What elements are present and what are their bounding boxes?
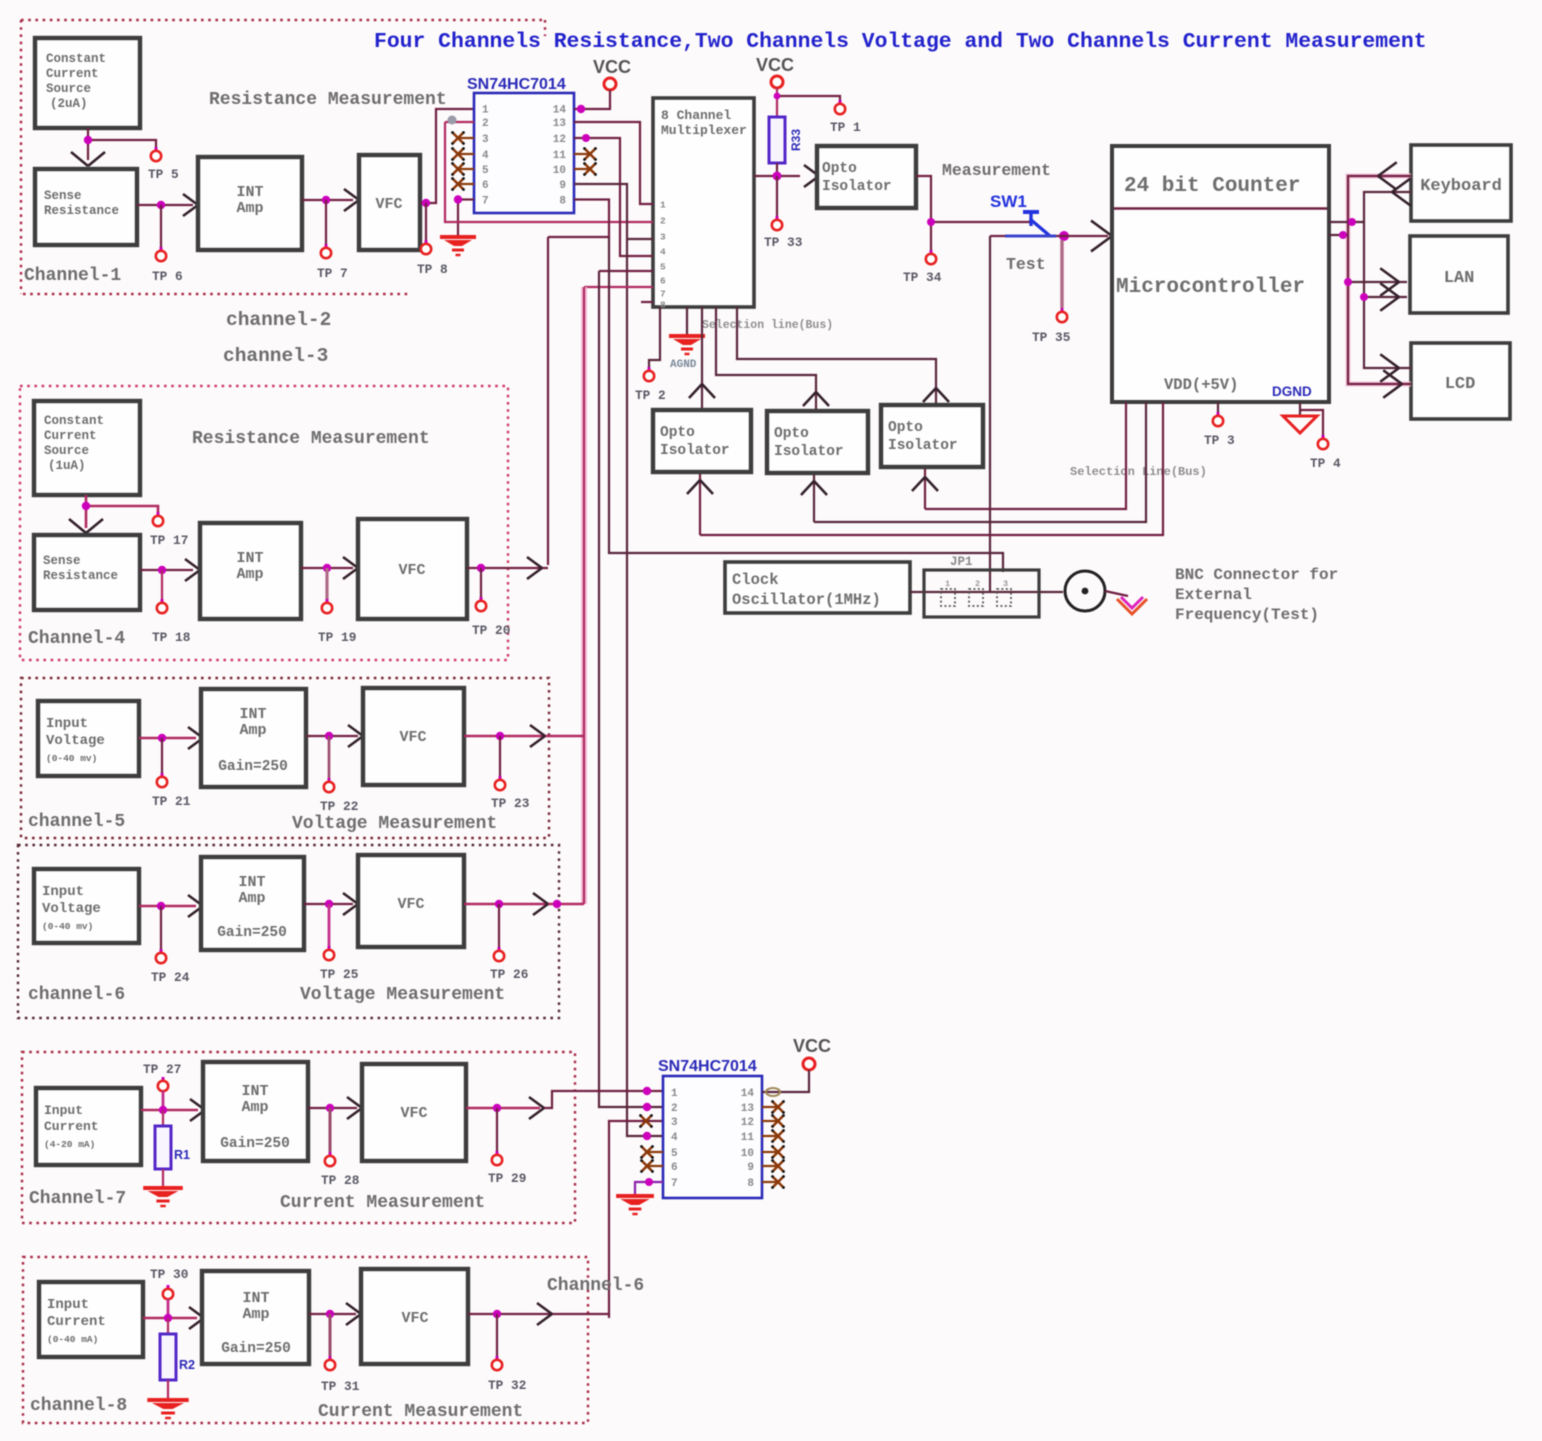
svg-text:channel-6: channel-6 bbox=[28, 985, 125, 1005]
svg-text:R33: R33 bbox=[789, 129, 803, 151]
svg-text:TP 31: TP 31 bbox=[321, 1379, 360, 1394]
svg-text:BNC Connector for: BNC Connector for bbox=[1175, 566, 1338, 584]
switch SW1 bbox=[990, 192, 1056, 236]
svg-text:Resistance Measurement: Resistance Measurement bbox=[192, 429, 430, 449]
VFC Channel-4 bbox=[358, 519, 467, 619]
svg-text:Current: Current bbox=[46, 67, 99, 81]
svg-text:24 bit Counter: 24 bit Counter bbox=[1124, 175, 1300, 198]
arrow into VFC ch4 bbox=[343, 557, 358, 568]
svg-text:TP 21: TP 21 bbox=[152, 794, 191, 809]
svg-text:Isolator: Isolator bbox=[774, 444, 844, 460]
channel-6 dashed boundary bbox=[18, 845, 559, 1018]
opto isolator C bbox=[881, 405, 983, 467]
svg-text:14: 14 bbox=[553, 105, 567, 117]
wire U1 pin13 to mux pin1 bbox=[574, 122, 653, 204]
arrow channel-6 output bbox=[533, 893, 548, 904]
svg-text:Sense: Sense bbox=[43, 554, 81, 568]
svg-text:TP 32: TP 32 bbox=[488, 1378, 526, 1393]
svg-text:Test: Test bbox=[1006, 255, 1046, 274]
svg-text:10: 10 bbox=[553, 165, 566, 177]
Channel-4 dashed boundary bbox=[20, 386, 508, 660]
constant current source (2uA) Channel-1 bbox=[35, 38, 140, 128]
no-connect X U2 pin9 bbox=[762, 1159, 785, 1173]
svg-text:INT: INT bbox=[236, 184, 263, 201]
svg-text:INT: INT bbox=[238, 874, 265, 891]
arrow into INT amp ch5 bbox=[188, 727, 203, 738]
svg-text:9: 9 bbox=[747, 1162, 754, 1174]
arrow into INT amp ch4 bbox=[185, 559, 200, 570]
arrow into INT amp ch1 bbox=[183, 194, 198, 216]
INT amp Channel-1 bbox=[198, 157, 302, 250]
arrow channel-4 output bbox=[527, 557, 542, 568]
wire VFC7 output bbox=[466, 1104, 540, 1112]
svg-text:INT: INT bbox=[236, 550, 263, 567]
wire U1 pin12 down to mux pin4 bbox=[574, 134, 653, 256]
wire input7 junction to INT amp bbox=[141, 1106, 198, 1114]
wire opto B bottom arrow bbox=[801, 475, 827, 522]
wire mux pin6 from channel riser x584 bbox=[584, 286, 653, 288]
ground below R1 bbox=[143, 1169, 183, 1206]
wire selection line micro to opto B bbox=[814, 402, 1146, 522]
svg-text:VFC: VFC bbox=[375, 196, 402, 213]
wire INT6 to VFC bbox=[304, 900, 353, 908]
svg-text:Four Channels Resistance,Two C: Four Channels Resistance,Two Channels Vo… bbox=[374, 30, 1427, 54]
svg-text:TP 30: TP 30 bbox=[150, 1267, 188, 1282]
svg-text:TP 19: TP 19 bbox=[318, 630, 356, 645]
test point TP35 bbox=[1032, 240, 1071, 345]
svg-text:Opto: Opto bbox=[774, 426, 809, 442]
svg-text:Amp: Amp bbox=[239, 722, 266, 739]
arrow keyboard to bus inner bbox=[1392, 178, 1411, 192]
svg-text:Channel-7: Channel-7 bbox=[29, 1189, 126, 1209]
svg-text:Sense: Sense bbox=[44, 189, 82, 203]
svg-text:TP 35: TP 35 bbox=[1032, 330, 1071, 345]
test point TP32 bbox=[488, 1314, 526, 1393]
ground below R2 bbox=[147, 1380, 188, 1418]
svg-text:Input: Input bbox=[46, 716, 88, 732]
svg-text:TP 7: TP 7 bbox=[317, 266, 348, 281]
wire U1 pin8 bus down to JP1 pin3 bbox=[609, 237, 1003, 572]
svg-text:5: 5 bbox=[671, 1148, 678, 1160]
bus wire micro to peripherals inner bbox=[1364, 192, 1411, 368]
test point TP24 bbox=[151, 906, 190, 985]
svg-text:(2uA): (2uA) bbox=[50, 97, 88, 111]
wire mux pin7 stub bbox=[641, 301, 653, 303]
arrow into mux from opto A bbox=[689, 384, 702, 398]
svg-text:Amp: Amp bbox=[238, 890, 265, 907]
wire CCS to sense resistance with branch to TP5 bbox=[84, 128, 156, 160]
svg-text:1: 1 bbox=[482, 105, 489, 117]
wire micro stub to inner bus bbox=[1329, 218, 1364, 226]
svg-text:7: 7 bbox=[482, 196, 489, 208]
svg-text:TP 18: TP 18 bbox=[152, 630, 190, 645]
VFC Channel-1 bbox=[359, 155, 420, 250]
svg-text:SW1: SW1 bbox=[990, 192, 1027, 211]
svg-text:Isolator: Isolator bbox=[822, 179, 892, 195]
wire channel-8 riser x609 to U2 pin3 bbox=[609, 1121, 663, 1318]
wire channel-4 output riser x548 bbox=[547, 237, 549, 565]
svg-text:Input: Input bbox=[42, 884, 84, 900]
svg-text:Isolator: Isolator bbox=[660, 443, 730, 459]
svg-text:TP 28: TP 28 bbox=[321, 1173, 359, 1188]
svg-text:Opto: Opto bbox=[822, 161, 857, 177]
svg-text:14: 14 bbox=[741, 1088, 755, 1100]
svg-text:9: 9 bbox=[559, 180, 566, 192]
svg-text:VCC: VCC bbox=[756, 55, 794, 75]
wire CCS4 to sense with branch TP17 bbox=[82, 495, 158, 528]
op-amp U1 SN74HC7014 bbox=[467, 76, 574, 213]
svg-text:7: 7 bbox=[660, 289, 666, 300]
svg-text:(1uA): (1uA) bbox=[48, 459, 86, 473]
arrow LCD outer bbox=[1383, 370, 1402, 384]
arrow into sense resistance ch4 bbox=[69, 519, 86, 533]
test point TP6 bbox=[152, 205, 183, 284]
svg-text:VFC: VFC bbox=[401, 1310, 428, 1327]
arrow LCD inner bbox=[1380, 354, 1399, 368]
wire clock to JP1 to BNC bbox=[910, 591, 1063, 593]
wire sense to INT amp bbox=[137, 201, 193, 209]
INT amp Channel-4 bbox=[200, 523, 301, 619]
U1 pin7 stub wire bbox=[454, 195, 474, 203]
svg-text:2: 2 bbox=[660, 216, 666, 227]
input voltage block ch6 bbox=[34, 869, 139, 943]
test point TP8 bbox=[417, 203, 448, 277]
arrow channel-5 output bbox=[530, 725, 545, 736]
no-connect X U2 pin13 bbox=[762, 1100, 785, 1114]
svg-text:8 Channel: 8 Channel bbox=[661, 108, 731, 123]
svg-text:3: 3 bbox=[660, 232, 666, 243]
opto isolator B bbox=[767, 411, 868, 473]
svg-text:TP 5: TP 5 bbox=[148, 167, 179, 182]
svg-text:INT: INT bbox=[239, 706, 266, 723]
svg-text:channel-8: channel-8 bbox=[30, 1396, 127, 1416]
wire U1 pin2 to mux pin2 (long bus) bbox=[445, 122, 653, 222]
svg-text:External: External bbox=[1175, 586, 1252, 604]
AGND ground below mux bbox=[669, 307, 705, 371]
svg-text:Source: Source bbox=[44, 444, 89, 458]
wire mux pin5 from channel riser x599 bbox=[599, 270, 653, 272]
test point TP20 bbox=[472, 568, 510, 638]
svg-text:6: 6 bbox=[660, 276, 666, 287]
svg-text:4: 4 bbox=[671, 1132, 678, 1144]
INT amp ch7 Gain=250 bbox=[203, 1062, 308, 1161]
test point TP4 bbox=[1300, 410, 1341, 471]
wire INT amp to VFC ch1 bbox=[302, 196, 353, 204]
svg-text:Channel-1: Channel-1 bbox=[24, 266, 121, 286]
svg-text:Voltage: Voltage bbox=[46, 733, 105, 749]
svg-text:Resistance: Resistance bbox=[44, 204, 119, 218]
test point TP21 bbox=[152, 738, 191, 809]
VCC for U1 bbox=[574, 57, 631, 113]
svg-text:TP 6: TP 6 bbox=[152, 269, 183, 284]
svg-text:VFC: VFC bbox=[397, 896, 424, 913]
resistor R33 bbox=[769, 117, 803, 163]
wire INT5 to VFC bbox=[306, 732, 358, 740]
arrow into INT amp ch6 bbox=[188, 895, 203, 906]
svg-text:TP 23: TP 23 bbox=[491, 796, 530, 811]
svg-text:R1: R1 bbox=[174, 1148, 190, 1162]
no-connect X U1 pin10 bbox=[574, 162, 597, 176]
DGND symbol bbox=[1283, 402, 1317, 433]
ground below U2 bbox=[616, 1194, 654, 1198]
wire sense4 to INT amp bbox=[140, 566, 193, 574]
no-connect X U2 pin8 bbox=[762, 1175, 785, 1189]
svg-text:11: 11 bbox=[553, 150, 567, 162]
svg-text:TP 20: TP 20 bbox=[472, 623, 510, 638]
svg-text:2: 2 bbox=[482, 118, 489, 130]
test point TP29 bbox=[488, 1108, 526, 1186]
svg-text:Current: Current bbox=[44, 429, 97, 443]
ground below U1 pin7 bbox=[440, 200, 476, 255]
test point TP26 bbox=[490, 904, 528, 982]
INT amp ch6 Gain=250 bbox=[201, 857, 304, 950]
svg-text:TP 24: TP 24 bbox=[151, 970, 190, 985]
Channel-7 dashed boundary bbox=[22, 1052, 575, 1223]
svg-text:TP 4: TP 4 bbox=[1310, 456, 1341, 471]
svg-text:5: 5 bbox=[482, 165, 489, 177]
svg-text:R2: R2 bbox=[179, 1358, 195, 1372]
arrow keyboard to bus outer bbox=[1378, 162, 1397, 176]
microcontroller with 24 bit counter bbox=[1112, 146, 1329, 402]
wire INT7 to VFC bbox=[308, 1104, 357, 1112]
wire U1 pin9 down long bus to bottom (branch mux pin3) bbox=[574, 184, 663, 1140]
wire channel-7 output jog to U2 pin1 bbox=[544, 1087, 663, 1108]
svg-text:Gain=250: Gain=250 bbox=[221, 1341, 291, 1357]
svg-text:TP 22: TP 22 bbox=[320, 799, 358, 814]
VFC ch7 bbox=[362, 1064, 466, 1161]
svg-text:12: 12 bbox=[741, 1117, 754, 1129]
svg-text:3: 3 bbox=[482, 134, 489, 146]
svg-text:JP1: JP1 bbox=[950, 555, 973, 569]
svg-text:3: 3 bbox=[1003, 579, 1008, 589]
arrow into VFC ch7 bbox=[347, 1097, 362, 1108]
arrow into sense resistance bbox=[71, 152, 105, 166]
test point TP1 bbox=[830, 100, 861, 135]
no-connect X U2 pin12 bbox=[762, 1114, 785, 1128]
svg-text:Resistance Measurement: Resistance Measurement bbox=[209, 90, 447, 110]
wire R33 to junction and mux output row bbox=[754, 163, 800, 181]
svg-text:Selection Line(Bus): Selection Line(Bus) bbox=[1070, 465, 1207, 479]
wire riser x599 to bottom U2 pin2 bbox=[599, 271, 663, 1111]
svg-text:(0-40 mv): (0-40 mv) bbox=[46, 753, 97, 764]
wire SW1 output to microcontroller bbox=[1056, 221, 1112, 252]
8 channel multiplexer bbox=[653, 98, 754, 311]
opto isolator A bbox=[653, 410, 751, 472]
no-connect X U1 pin6 bbox=[451, 177, 474, 191]
wire VFC6 output to riser bbox=[464, 900, 584, 908]
resistor R2 bbox=[160, 1318, 195, 1380]
svg-text:TP 34: TP 34 bbox=[903, 270, 942, 285]
svg-text:LCD: LCD bbox=[1445, 375, 1476, 394]
wire SW1 test contact down to JP1 bbox=[990, 236, 1005, 592]
opto isolator 1 bbox=[817, 146, 916, 208]
wire mux to opto C top bbox=[737, 307, 936, 404]
no-connect X U2 pin6 bbox=[640, 1159, 663, 1173]
svg-text:Channel-6: Channel-6 bbox=[547, 1276, 644, 1296]
test point TP34 bbox=[903, 218, 942, 285]
svg-text:6: 6 bbox=[482, 180, 489, 192]
svg-text:Frequency(Test): Frequency(Test) bbox=[1175, 606, 1319, 624]
test point TP17 bbox=[150, 512, 188, 548]
wire input8 junction to INT amp bbox=[143, 1314, 197, 1322]
wire opto A bottom arrow bbox=[687, 474, 713, 535]
svg-text:DGND: DGND bbox=[1272, 384, 1312, 399]
op-amp U2 SN74HC7014 bbox=[658, 1058, 762, 1198]
label BNC Connector for External Frequency(Test) bbox=[1175, 566, 1338, 624]
svg-text:TP 26: TP 26 bbox=[490, 967, 528, 982]
wire input5 to INT amp bbox=[139, 734, 196, 742]
svg-text:8: 8 bbox=[559, 196, 566, 208]
svg-text:VCC: VCC bbox=[593, 57, 631, 77]
svg-text:INT: INT bbox=[241, 1083, 268, 1100]
svg-text:Isolator: Isolator bbox=[888, 438, 958, 454]
wire selection line micro to opto A bbox=[700, 402, 1163, 535]
svg-text:VCC: VCC bbox=[793, 1036, 831, 1056]
keyboard block bbox=[1411, 145, 1511, 221]
input voltage block ch5 bbox=[38, 701, 139, 776]
svg-text:channel-2: channel-2 bbox=[226, 309, 331, 331]
svg-text:(0-40 mA): (0-40 mA) bbox=[47, 1334, 98, 1345]
svg-text:10: 10 bbox=[741, 1148, 754, 1160]
connector JP1 bbox=[924, 555, 1039, 617]
svg-text:Current: Current bbox=[47, 1314, 106, 1330]
svg-text:1: 1 bbox=[671, 1088, 678, 1100]
svg-text:TP 17: TP 17 bbox=[150, 533, 188, 548]
wire input6 to INT amp bbox=[139, 902, 196, 910]
test point TP18 bbox=[152, 570, 190, 645]
svg-text:Gain=250: Gain=250 bbox=[220, 1136, 290, 1152]
arrow channel-7 output bbox=[529, 1097, 544, 1108]
svg-text:TP 29: TP 29 bbox=[488, 1171, 526, 1186]
svg-text:Microcontroller: Microcontroller bbox=[1116, 276, 1305, 299]
svg-text:Input: Input bbox=[47, 1297, 89, 1313]
svg-text:Oscillator(1MHz): Oscillator(1MHz) bbox=[732, 591, 881, 609]
wire mux to opto A top bbox=[701, 307, 703, 408]
wire micro stub to outer bus bbox=[1329, 231, 1348, 239]
no-connect X U1 pin3 bbox=[451, 131, 474, 145]
test point TP7 bbox=[317, 200, 348, 281]
svg-text:Clock: Clock bbox=[732, 571, 779, 589]
svg-text:8: 8 bbox=[747, 1178, 754, 1190]
svg-text:Input: Input bbox=[44, 1103, 83, 1118]
svg-text:TP 25: TP 25 bbox=[320, 967, 359, 982]
svg-text:Amp: Amp bbox=[242, 1306, 269, 1323]
clock oscillator 1MHz bbox=[725, 562, 910, 613]
svg-text:INT: INT bbox=[242, 1290, 269, 1307]
input current block ch7 bbox=[36, 1088, 141, 1165]
svg-text:SN74HC7014: SN74HC7014 bbox=[658, 1058, 757, 1075]
wire VCC branch to TP1 bbox=[774, 93, 840, 102]
arrow into VFC ch5 bbox=[348, 725, 363, 736]
ground arrow at BNC bbox=[1117, 597, 1147, 614]
no-connect X U2 pin10 bbox=[762, 1145, 785, 1159]
test point TP31 bbox=[321, 1314, 360, 1394]
svg-text:Gain=250: Gain=250 bbox=[217, 925, 287, 941]
svg-text:12: 12 bbox=[553, 134, 566, 146]
svg-text:VFC: VFC bbox=[398, 562, 425, 579]
svg-text:TP 8: TP 8 bbox=[417, 262, 448, 277]
wire mux to TP2 bbox=[649, 307, 660, 369]
svg-text:Amp: Amp bbox=[236, 566, 263, 583]
svg-text:Multiplexer: Multiplexer bbox=[661, 123, 747, 138]
svg-text:Voltage Measurement: Voltage Measurement bbox=[300, 985, 505, 1005]
svg-text:channel-5: channel-5 bbox=[28, 812, 125, 832]
LCD block bbox=[1411, 343, 1510, 419]
wire VFC5 output to riser bbox=[464, 732, 584, 740]
no-connect X U2 pin5 bbox=[640, 1145, 663, 1159]
svg-text:2: 2 bbox=[975, 579, 980, 589]
svg-text:4: 4 bbox=[482, 150, 489, 162]
svg-text:Amp: Amp bbox=[241, 1099, 268, 1116]
Channel-8 dashed boundary bbox=[23, 1257, 588, 1423]
svg-text:Channel-4: Channel-4 bbox=[28, 629, 125, 649]
svg-text:TP 33: TP 33 bbox=[764, 235, 803, 250]
svg-text:Current: Current bbox=[44, 1119, 99, 1134]
constant current source (1uA) Channel-4 bbox=[34, 401, 140, 495]
svg-text:Amp: Amp bbox=[236, 200, 263, 217]
test point TP33 bbox=[764, 176, 803, 250]
INT amp ch5 Gain=250 bbox=[201, 689, 306, 787]
bus wire micro to peripherals outer bbox=[1348, 176, 1411, 384]
wire INT8 to VFC bbox=[309, 1310, 356, 1318]
svg-text:7: 7 bbox=[671, 1178, 678, 1190]
no-connect X U2 pin11 bbox=[762, 1129, 785, 1143]
svg-text:Voltage: Voltage bbox=[42, 901, 101, 917]
svg-text:VFC: VFC bbox=[399, 729, 426, 746]
svg-text:Opto: Opto bbox=[888, 420, 923, 436]
input current block ch8 bbox=[39, 1282, 143, 1357]
test point TP25 bbox=[320, 904, 359, 982]
wire INT4 to VFC bbox=[301, 564, 353, 572]
wire U1 pin8 to channel-4 riser bbox=[548, 200, 609, 238]
wire opto1 output to SW1 bbox=[916, 176, 1031, 222]
svg-text:VFC: VFC bbox=[400, 1105, 427, 1122]
wire channel-5/6 output riser x584 bbox=[581, 287, 587, 904]
svg-text:Keyboard: Keyboard bbox=[1420, 177, 1502, 196]
svg-text:Selection line(Bus): Selection line(Bus) bbox=[702, 319, 833, 332]
arrow into VFC ch6 bbox=[343, 893, 358, 904]
test point TP19 bbox=[318, 568, 356, 645]
svg-text:AGND: AGND bbox=[670, 359, 697, 371]
svg-text:2: 2 bbox=[671, 1103, 678, 1115]
svg-text:VDD(+5V): VDD(+5V) bbox=[1164, 376, 1238, 394]
sense resistance Channel-1 bbox=[35, 169, 137, 245]
svg-text:Constant: Constant bbox=[44, 414, 104, 428]
VCC for U2 bbox=[762, 1036, 831, 1096]
svg-text:Source: Source bbox=[46, 82, 91, 96]
test point TP27 bbox=[143, 1062, 181, 1110]
svg-text:TP 2: TP 2 bbox=[635, 388, 666, 403]
wire U2 pin7 to ground bbox=[635, 1178, 663, 1194]
VFC ch5 bbox=[363, 688, 464, 785]
svg-text:1: 1 bbox=[945, 579, 950, 589]
LAN block bbox=[1410, 236, 1508, 313]
svg-text:(0-40 mv): (0-40 mv) bbox=[42, 921, 93, 932]
arrow opto B top bbox=[803, 392, 816, 406]
svg-text:Measurement: Measurement bbox=[942, 161, 1051, 180]
svg-text:Constant: Constant bbox=[46, 52, 106, 66]
arrow into INT amp ch7 bbox=[190, 1099, 205, 1110]
svg-text:SN74HC7014: SN74HC7014 bbox=[467, 76, 566, 93]
svg-text:11: 11 bbox=[741, 1132, 755, 1144]
svg-text:3: 3 bbox=[671, 1117, 678, 1129]
no-connect X U1 pin5 bbox=[451, 162, 474, 176]
resistor R1 bbox=[155, 1110, 190, 1169]
svg-text:Gain=250: Gain=250 bbox=[218, 759, 288, 775]
INT amp ch8 Gain=250 bbox=[202, 1271, 309, 1364]
svg-text:channel-3: channel-3 bbox=[223, 345, 328, 367]
no-connect X U2 pin3 bbox=[641, 1116, 652, 1127]
